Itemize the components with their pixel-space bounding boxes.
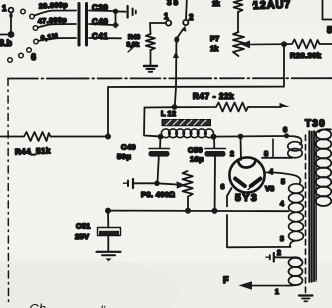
tube plate (pin 4) [251,179,261,186]
node (L12 left) [158,134,164,140]
label C50 16u [188,146,204,164]
svg-text:1k: 1k [210,44,219,53]
svg-text:6: 6 [283,125,287,134]
svg-text:4: 4 [280,201,284,208]
arm arrowhead [173,52,179,59]
switch arm (wiper) [174,25,186,42]
ground (shield) [299,296,313,302]
svg-text:R43: R43 [128,34,140,41]
svg-text:2: 2 [230,151,234,158]
wire (R43 to contact 1) [150,23,166,34]
wire from top to contact 2 [185,0,188,20]
transformer core [308,131,317,282]
resistor R28-30k [284,40,332,49]
wire [115,11,117,25]
transformer winding HT (5-4-3) [289,184,304,247]
svg-text:C49: C49 [121,143,136,152]
wire (pin 6 to HT winding bottom) [227,188,291,247]
svg-text:F: F [223,275,229,285]
capacitor C40 [79,18,87,32]
wiper arrow P7 [241,40,285,48]
ground (C51) [97,252,121,262]
svg-text:V3: V3 [265,184,274,193]
wire [150,50,152,66]
wire [237,12,239,32]
node 2 (selector) [183,13,194,25]
chassis line (dashed vertical left) [7,79,10,304]
svg-text:3: 3 [280,236,284,243]
svg-text:R28.30k: R28.30k [290,51,322,60]
svg-text:R44_51k: R44_51k [15,146,51,156]
svg-text:2: 2 [277,250,281,257]
potentiometer P8 [183,171,193,197]
resistor R47 [145,103,282,112]
svg-text:C50: C50 [188,146,203,155]
node (C49/wiper) [154,181,160,187]
wire C40 out [89,24,113,25]
wire (contact to C39) [34,11,76,16]
label C51 25V [75,222,91,242]
coil L12 core [162,120,211,126]
svg-text:25V: 25V [75,232,89,241]
capacitor C50 [205,137,226,210]
tube plate (pin 6) [235,179,245,186]
svg-text:R47 - 22k: R47 - 22k [193,92,234,101]
resistor R44 [0,132,105,141]
capacitor to chassis (top) [128,6,136,18]
node [112,22,119,29]
ground (R43) [144,66,157,72]
node (wiper / R28) [281,41,287,47]
node (tube top tie) [238,134,244,140]
label 12AU7 [253,0,292,12]
node (arm/R47) [172,104,178,110]
capacitor to chassis (winding 2) [266,253,291,262]
node (C51/bus) [105,208,111,214]
arrow (R47 out) [280,103,290,111]
node (C50/bus) [212,208,218,214]
filament winding return [272,139,274,157]
svg-text:8: 8 [264,149,268,158]
svg-text:1k: 1k [212,1,220,8]
label R43 3,9k [127,34,141,52]
resistor R43 [146,34,155,50]
wire (P8 to bus) [187,197,189,211]
capacitor C51 [98,211,121,251]
resistor 1k [234,0,243,12]
tube V3 envelope [229,157,264,192]
svg-text:6: 6 [221,184,225,191]
wire (L12 right to tube node) [214,135,287,138]
potentiometer P7 [233,32,244,56]
svg-text:16μ: 16μ [190,155,204,164]
svg-text:T30: T30 [305,119,326,130]
svg-text:50μ: 50μ [117,152,131,161]
node (P8/bus) [185,208,191,214]
shield line (dash vertical) [305,135,307,293]
wire [10,13,12,32]
tube cathode [238,161,255,168]
capacitor C49 [149,137,170,183]
label C49 50u [117,143,136,162]
chassis line (dash-dot horizontal) [8,77,332,79]
rotary switch contacts [8,9,39,62]
svg-text:3.b: 3.b [0,38,13,48]
wire (pin 4 to HT winding top) [265,172,301,183]
svg-text:L 12: L 12 [161,109,176,118]
arrow F (winding 1 out) [239,281,288,290]
wire (pin 8 to filament winding) [262,157,292,159]
svg-text:3 5: 3 5 [167,0,179,7]
wiper arrow P8 [157,181,186,188]
coil L12 winding [161,129,213,138]
wire (R47 down to L12) [144,108,158,137]
transformer winding 2-1 [287,257,303,285]
svg-text:C41: C41 [92,32,108,41]
svg-text:5: 5 [327,25,332,35]
capacitor C39 [79,4,87,18]
node 1 (selector) [164,12,171,26]
node 3.b junction [8,31,15,38]
capacitor to chassis (P8 row) [124,179,157,188]
node 6 (T30) [284,133,289,138]
svg-text:6: 6 [31,52,36,62]
svg-text:P8. 400Ω: P8. 400Ω [141,190,175,199]
node (R44/C51) [105,134,111,140]
label P7 1k [210,34,219,53]
wire (contact to C41) [38,38,76,41]
svg-text:a—— d’a——: a—— d’a—— [62,304,137,308]
svg-text:2: 2 [189,13,194,22]
node (L12 right) [211,134,217,140]
wire [0,34,11,36]
transformer primary winding [316,129,332,206]
wire to chassis cap [118,11,126,13]
svg-text:C51: C51 [76,222,91,231]
wire (contact to C40) [38,24,76,28]
wire (bus C51 top / plate line) [108,44,284,136]
svg-text:1: 1 [2,4,7,13]
node (C39/C40 tie) [113,9,118,14]
transformer winding 6-8 (filament) [287,136,303,158]
svg-text:P7: P7 [210,34,219,43]
junction blob [9,13,12,18]
wire C41 out [89,37,121,39]
wire (arm down to R47 node) [175,42,177,107]
capacitor C41 [79,32,87,46]
svg-text:5: 5 [281,179,285,186]
wire C39 out [89,10,113,13]
svg-text:5Y3: 5Y3 [235,192,258,204]
wire (node to tube pin 2) [240,136,243,160]
bus wire (ground return) [108,210,289,213]
wire (top right corner) [323,0,332,20]
svg-text:1: 1 [275,289,279,296]
svg-text:12AU7: 12AU7 [253,0,292,12]
node 1 (switch contact, top-left) [2,4,13,13]
svg-text:Ch: Ch [29,302,46,308]
